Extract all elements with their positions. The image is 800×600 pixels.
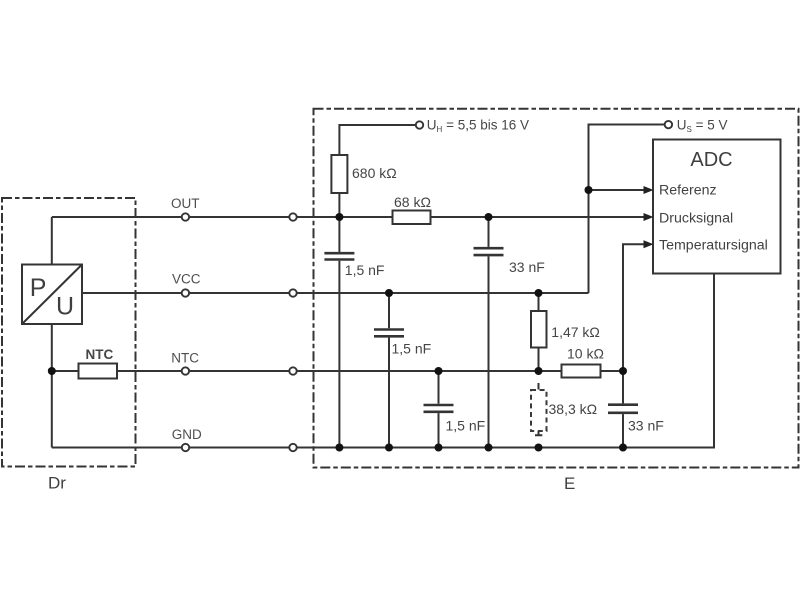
wire VCC node down to C2 top plate [388, 293, 390, 328]
svg-text:680 kΩ: 680 kΩ [352, 165, 397, 181]
svg-text:VCC: VCC [172, 272, 201, 287]
svg-text:38,3 kΩ: 38,3 kΩ [549, 401, 598, 417]
sensor P/U box [22, 265, 82, 325]
terminal VCC right [289, 289, 296, 296]
svg-text:GND: GND [172, 427, 202, 442]
wire NTC right node down to C4 top plate [622, 371, 624, 403]
node NTC sensor junction [48, 367, 56, 375]
svg-text:Drucksignal: Drucksignal [659, 211, 733, 227]
wire Temperatursignal riser and arrow line [623, 244, 645, 371]
node GND C2 junction [385, 444, 393, 452]
wire OUT horizontal to ADC Drucksignal [52, 216, 644, 218]
resistor 10 kOhm [562, 365, 601, 378]
svg-text:UH = 5,5 bis 16 V: UH = 5,5 bis 16 V [427, 118, 529, 135]
svg-text:Temperatursignal: Temperatursignal [659, 238, 768, 254]
node NTC C3 junction [435, 367, 443, 375]
node GND C1 junction [335, 444, 343, 452]
wire 680k node down to C1 top plate [338, 217, 340, 252]
resistor NTC in sensor [79, 364, 118, 379]
node GND 33nF junction [485, 444, 493, 452]
resistor 38,3 kOhm dashed body [531, 390, 547, 431]
wire C-33nF bottom plate down to GND [488, 256, 490, 447]
svg-text:33 nF: 33 nF [628, 418, 664, 434]
capacitor C1 1,5 nF plates [324, 253, 354, 259]
wire VCC from sensor to riser [82, 292, 589, 294]
wire NTC horizontal [52, 370, 623, 372]
wire C1 bottom plate down to GND [338, 261, 340, 448]
resistor 680 kOhm [331, 155, 347, 193]
terminal US supply [665, 121, 672, 128]
svg-text:Dr: Dr [48, 474, 66, 493]
svg-text:10 kΩ: 10 kΩ [567, 346, 604, 362]
resistor 38,3 kOhm dashed lead bottom with tick [535, 431, 542, 435]
capacitor C3 1,5 nF plates [424, 405, 454, 412]
box E dashed border [314, 109, 799, 468]
svg-text:P: P [30, 274, 47, 302]
arrowhead Drucksignal [644, 213, 654, 221]
wire 1.47k branch VCC node to NTC node [538, 293, 540, 371]
node OUT 680k junction [335, 213, 343, 221]
svg-text:NTC: NTC [171, 351, 199, 366]
node GND 38,3k junction [535, 444, 543, 452]
capacitor 33 nF left plates [474, 248, 504, 255]
wire 68k node down to C-33nF top plate [488, 217, 490, 247]
node NTC 10k right junction [619, 367, 627, 375]
wire VCC riser up to Us rail [589, 125, 666, 294]
wire C4 bottom plate down to GND [622, 414, 624, 447]
capacitor 33 nF right plates [608, 405, 638, 413]
svg-text:1,5 nF: 1,5 nF [345, 262, 385, 278]
terminal GND left [182, 444, 189, 451]
node VCC C2 junction [385, 289, 393, 297]
wire Referenz arrow line [589, 189, 645, 191]
svg-text:Referenz: Referenz [659, 183, 717, 199]
terminal NTC right [289, 367, 296, 374]
svg-text:OUT: OUT [171, 196, 200, 211]
svg-text:NTC: NTC [86, 347, 114, 362]
node Referenz branch junction [585, 186, 593, 194]
node GND C4 junction [619, 444, 627, 452]
svg-text:1,5 nF: 1,5 nF [446, 418, 486, 434]
svg-text:1,5 nF: 1,5 nF [392, 341, 432, 357]
svg-text:U: U [56, 293, 74, 321]
terminal GND right [289, 444, 296, 451]
wire NTC node down to C3 top plate [438, 371, 440, 404]
terminal NTC left [182, 367, 189, 374]
ADC box [653, 140, 781, 274]
svg-text:33 nF: 33 nF [509, 259, 545, 275]
wire sensor bottom vertical to GND [51, 324, 53, 448]
node NTC 38,3k junction [535, 367, 543, 375]
svg-text:1,47 kΩ: 1,47 kΩ [551, 324, 600, 340]
wire OUT vertical from sensor top [51, 217, 53, 265]
svg-text:68 kΩ: 68 kΩ [394, 194, 431, 210]
terminal OUT right [289, 213, 296, 220]
arrowhead Referenz [644, 186, 654, 194]
wire UH rail with 680k branch top [339, 125, 416, 217]
terminal OUT left [182, 213, 189, 220]
arrowhead Temperatursignal [644, 240, 654, 248]
resistor 1,47 kOhm [531, 311, 547, 348]
svg-text:E: E [564, 474, 575, 493]
svg-text:US = 5 V: US = 5 V [677, 117, 728, 134]
terminal UH supply [416, 121, 423, 128]
node GND C3 junction [435, 444, 443, 452]
capacitor C2 1,5 nF plates [374, 330, 404, 337]
node OUT 33nF junction [485, 213, 493, 221]
wire C3 bottom plate down to GND [438, 413, 440, 447]
wire C2 bottom plate down to GND [388, 338, 390, 448]
terminal VCC left [182, 289, 189, 296]
box Dr dashed border [2, 198, 136, 467]
resistor 68 kOhm [393, 211, 431, 225]
resistor 38,3 kOhm dashed lead top [538, 383, 540, 390]
node VCC 1,47k junction [535, 289, 543, 297]
sensor P/U diagonal [22, 265, 82, 325]
svg-text:ADC: ADC [690, 149, 732, 171]
wire GND horizontal and riser to ADC bottom [52, 274, 714, 448]
